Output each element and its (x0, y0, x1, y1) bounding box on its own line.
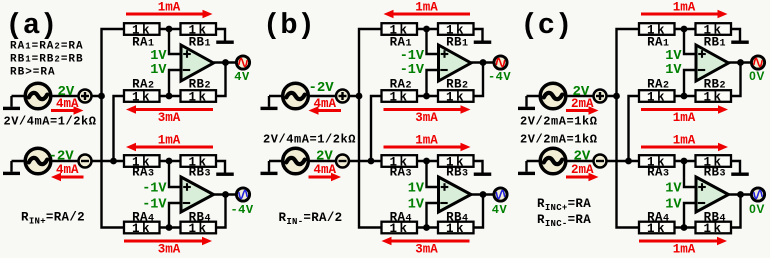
svg-text:-4V: -4V (488, 70, 511, 84)
svg-text:RB1: RB1 (189, 35, 211, 49)
svg-text:RB>=RA: RB>=RA (10, 67, 56, 79)
svg-text:1k: 1k (188, 91, 208, 105)
svg-text:1mA: 1mA (673, 242, 696, 256)
svg-text:RA2: RA2 (390, 77, 412, 91)
svg-text:RB2: RB2 (189, 77, 211, 91)
svg-text:1V: 1V (150, 63, 167, 78)
svg-text:-1V: -1V (400, 49, 425, 64)
svg-text:1V: 1V (408, 182, 425, 197)
svg-text:RA3: RA3 (647, 165, 669, 179)
svg-text:RB3: RB3 (704, 165, 726, 179)
svg-text:RA3: RA3 (132, 165, 154, 179)
svg-text:1k: 1k (389, 91, 409, 105)
svg-text:2V/2mA=1kΩ: 2V/2mA=1kΩ (520, 115, 598, 129)
svg-text:1V: 1V (665, 63, 682, 78)
svg-text:4mA: 4mA (314, 97, 337, 111)
svg-text:RA4: RA4 (390, 211, 412, 225)
svg-text:RA2: RA2 (647, 77, 669, 91)
svg-text:RB4: RB4 (446, 211, 468, 225)
svg-text:1mA: 1mA (158, 133, 181, 147)
svg-text:RB3: RB3 (189, 165, 211, 179)
svg-text:RB4: RB4 (189, 211, 211, 225)
svg-text:0V: 0V (749, 202, 765, 216)
svg-text:1V: 1V (150, 49, 167, 64)
svg-text:2mA: 2mA (571, 97, 594, 111)
svg-text:3mA: 3mA (158, 242, 181, 256)
svg-text:RA1=RA2=RA: RA1=RA2=RA (10, 41, 84, 53)
svg-text:1V: 1V (665, 49, 682, 64)
svg-text:2V/4mA=1/2kΩ: 2V/4mA=1/2kΩ (263, 133, 356, 147)
svg-text:4mA: 4mA (56, 163, 79, 177)
svg-text:1mA: 1mA (415, 1, 438, 15)
svg-text:RA3: RA3 (390, 165, 412, 179)
svg-text:-4V: -4V (230, 203, 253, 217)
svg-text:1mA: 1mA (673, 133, 696, 147)
svg-text:3mA: 3mA (415, 111, 438, 125)
svg-text:RA2: RA2 (132, 77, 154, 91)
svg-text:-1V: -1V (142, 182, 167, 197)
svg-text:(c): (c) (521, 9, 573, 42)
svg-text:RB4: RB4 (704, 211, 726, 225)
svg-text:4V: 4V (234, 70, 250, 84)
svg-text:1V: 1V (408, 198, 425, 213)
svg-text:(a): (a) (6, 9, 58, 42)
svg-text:1mA: 1mA (673, 111, 696, 125)
svg-text:2V/2mA=1kΩ: 2V/2mA=1kΩ (520, 133, 598, 147)
svg-text:RB1=RB2=RB: RB1=RB2=RB (10, 54, 84, 66)
svg-text:1V: 1V (665, 198, 682, 213)
svg-text:RA4: RA4 (132, 211, 154, 225)
svg-text:4V: 4V (492, 203, 508, 217)
svg-text:4mA: 4mA (56, 97, 79, 111)
svg-text:0V: 0V (749, 69, 765, 83)
svg-text:3mA: 3mA (158, 111, 181, 125)
svg-text:RB1: RB1 (704, 35, 726, 49)
svg-text:1k: 1k (647, 91, 667, 105)
svg-text:1k: 1k (446, 91, 466, 105)
svg-text:4mA: 4mA (314, 163, 337, 177)
svg-text:(b): (b) (263, 9, 315, 42)
svg-text:-1V: -1V (400, 63, 425, 78)
svg-text:2V/4mA=1/2kΩ: 2V/4mA=1/2kΩ (4, 115, 97, 129)
svg-text:1V: 1V (665, 182, 682, 197)
svg-text:RB1: RB1 (446, 35, 468, 49)
svg-text:RA1: RA1 (647, 35, 669, 49)
svg-text:-2V: -2V (309, 80, 335, 96)
svg-text:RA4: RA4 (647, 211, 669, 225)
svg-text:1k: 1k (132, 91, 152, 105)
svg-text:RA1: RA1 (132, 35, 154, 49)
svg-text:RB2: RB2 (446, 77, 468, 91)
svg-text:1mA: 1mA (158, 1, 181, 15)
svg-text:1k: 1k (703, 91, 723, 105)
svg-text:RA1: RA1 (390, 35, 412, 49)
svg-text:2mA: 2mA (571, 163, 594, 177)
svg-text:RB3: RB3 (446, 165, 468, 179)
svg-text:3mA: 3mA (415, 242, 438, 256)
svg-text:1mA: 1mA (673, 1, 696, 15)
svg-text:-1V: -1V (142, 198, 167, 213)
svg-text:RB2: RB2 (704, 77, 726, 91)
svg-text:1mA: 1mA (415, 133, 438, 147)
